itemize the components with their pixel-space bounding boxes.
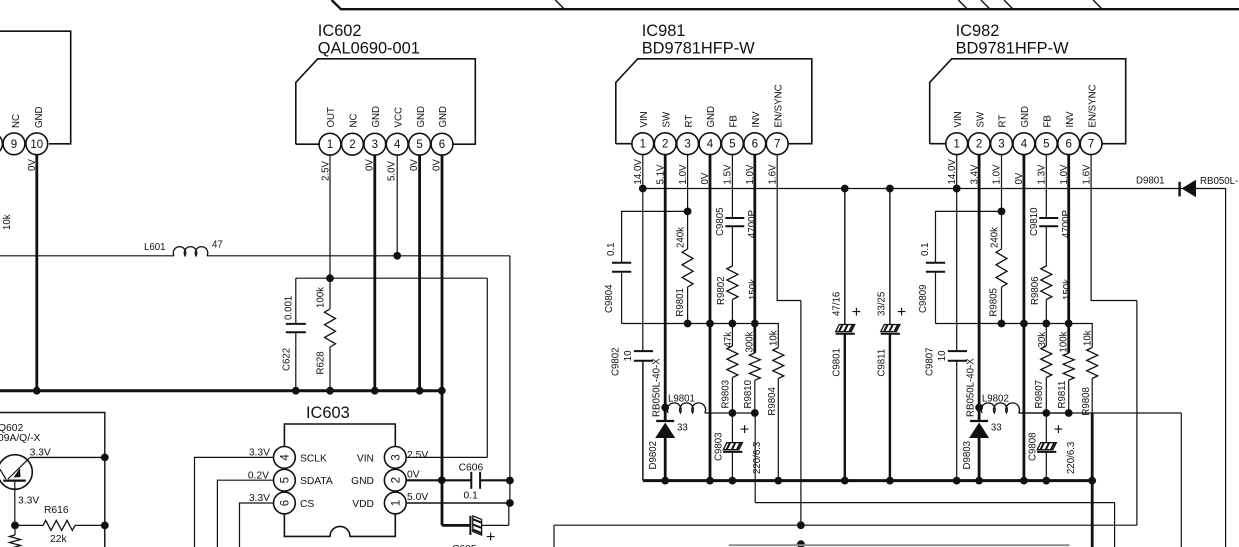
svg-text:L9802: L9802: [982, 394, 1009, 405]
svg-text:7: 7: [774, 139, 780, 151]
svg-text:1: 1: [953, 139, 959, 151]
svg-text:FB: FB: [729, 115, 740, 127]
svg-text:0V: 0V: [407, 470, 420, 481]
svg-text:R628: R628: [316, 351, 327, 374]
svg-text:VIN: VIN: [357, 453, 374, 464]
svg-text:100k: 100k: [315, 287, 326, 308]
svg-text:09A/Q/-X: 09A/Q/-X: [0, 433, 40, 444]
svg-text:+: +: [486, 529, 495, 546]
svg-text:3.3V: 3.3V: [249, 448, 270, 459]
svg-text:D9802: D9802: [648, 441, 659, 470]
svg-text:10k: 10k: [1082, 330, 1093, 346]
svg-text:47k: 47k: [723, 332, 734, 348]
svg-text:IC603: IC603: [306, 404, 350, 422]
svg-text:1.0V: 1.0V: [992, 164, 1003, 184]
svg-text:NC: NC: [349, 114, 360, 128]
svg-text:47: 47: [212, 240, 223, 251]
svg-text:1.3V: 1.3V: [1037, 164, 1048, 184]
svg-text:10: 10: [937, 350, 948, 361]
svg-text:14.0V: 14.0V: [633, 159, 644, 185]
svg-text:C9809: C9809: [918, 284, 929, 313]
svg-text:300k: 300k: [744, 331, 755, 352]
svg-text:2: 2: [349, 139, 355, 151]
svg-text:3.3V: 3.3V: [18, 496, 39, 507]
svg-text:10k: 10k: [769, 330, 780, 346]
svg-text:0.1: 0.1: [920, 243, 931, 256]
svg-text:33: 33: [677, 423, 688, 434]
svg-text:33/25: 33/25: [877, 292, 888, 316]
svg-text:0V: 0V: [432, 159, 443, 171]
svg-text:3.3V: 3.3V: [249, 493, 270, 504]
svg-text:SCLK: SCLK: [300, 453, 327, 464]
svg-text:+: +: [852, 304, 861, 321]
svg-text:2: 2: [976, 139, 982, 151]
svg-text:6: 6: [439, 139, 445, 151]
svg-text:SW: SW: [975, 111, 986, 127]
svg-text:VDD: VDD: [352, 499, 374, 510]
svg-text:0.2V: 0.2V: [248, 470, 269, 481]
svg-text:5.0V: 5.0V: [387, 161, 398, 181]
svg-text:GND: GND: [34, 106, 45, 128]
svg-text:C9801: C9801: [832, 348, 843, 377]
svg-text:1: 1: [640, 139, 646, 151]
svg-text:VCC: VCC: [393, 107, 404, 127]
svg-text:GND: GND: [351, 476, 374, 487]
svg-text:1.5V: 1.5V: [723, 164, 734, 184]
svg-text:47/16: 47/16: [832, 292, 843, 316]
svg-text:3: 3: [998, 139, 1004, 151]
svg-text:240k: 240k: [676, 227, 687, 248]
svg-text:0V: 0V: [409, 159, 420, 171]
svg-text:5: 5: [416, 139, 422, 151]
svg-text:RT: RT: [998, 115, 1009, 128]
svg-text:4: 4: [394, 139, 401, 151]
svg-text:R9805: R9805: [989, 288, 1000, 317]
svg-text:3.4V: 3.4V: [969, 164, 980, 184]
svg-text:33: 33: [991, 423, 1002, 434]
svg-text:R9802: R9802: [716, 276, 727, 305]
svg-text:EN/SYNC: EN/SYNC: [773, 84, 784, 127]
svg-text:0V: 0V: [1014, 172, 1025, 184]
svg-text:1: 1: [390, 500, 402, 506]
svg-text:C9811: C9811: [877, 349, 888, 377]
svg-text:VIN: VIN: [639, 111, 650, 127]
svg-text:6: 6: [1065, 139, 1071, 151]
svg-text:5: 5: [1043, 139, 1049, 151]
svg-text:22k: 22k: [50, 534, 67, 545]
svg-text:6: 6: [279, 500, 291, 506]
svg-text:0.001: 0.001: [284, 296, 295, 320]
svg-text:C9804: C9804: [604, 284, 615, 313]
svg-text:RB050L-40-X: RB050L-40-X: [652, 358, 663, 417]
svg-text:6: 6: [752, 139, 758, 151]
svg-text:R9811: R9811: [1057, 381, 1068, 409]
svg-text:R9808: R9808: [1081, 387, 1092, 416]
svg-text:2.5V: 2.5V: [321, 161, 332, 181]
svg-text:INV: INV: [751, 111, 762, 128]
svg-text:0V: 0V: [700, 172, 711, 184]
svg-text:0V: 0V: [364, 159, 375, 171]
svg-text:R9810: R9810: [743, 379, 754, 408]
svg-text:D9803: D9803: [962, 441, 973, 470]
svg-text:4700P: 4700P: [747, 210, 758, 238]
svg-text:EN/SYNC: EN/SYNC: [1087, 84, 1098, 127]
svg-text:1.6V: 1.6V: [767, 164, 778, 184]
svg-text:C9803: C9803: [714, 432, 725, 461]
svg-text:C9802: C9802: [611, 347, 622, 376]
svg-text:CS: CS: [300, 499, 314, 510]
svg-text:R9801: R9801: [675, 288, 686, 317]
svg-text:100k: 100k: [1058, 331, 1069, 352]
svg-text:GND: GND: [1020, 106, 1031, 128]
svg-text:3.3V: 3.3V: [30, 448, 51, 459]
svg-text:BD9781HFP-W: BD9781HFP-W: [642, 40, 755, 58]
svg-text:9: 9: [11, 139, 17, 151]
svg-text:4: 4: [707, 139, 714, 151]
svg-text:GND: GND: [438, 106, 449, 128]
svg-text:NC: NC: [11, 114, 22, 128]
svg-text:14.0V: 14.0V: [947, 159, 958, 185]
svg-text:IC602: IC602: [318, 22, 362, 40]
svg-text:C606: C606: [459, 462, 484, 473]
svg-text:C9810: C9810: [1029, 207, 1040, 236]
svg-text:BD9781HFP-W: BD9781HFP-W: [956, 40, 1069, 58]
svg-text:R9806: R9806: [1030, 276, 1041, 305]
svg-text:VIN: VIN: [953, 111, 964, 127]
svg-text:SDATA: SDATA: [300, 476, 333, 487]
svg-text:+: +: [1054, 422, 1063, 439]
svg-text:10: 10: [30, 139, 43, 151]
svg-text:3: 3: [684, 139, 690, 151]
svg-text:L601: L601: [144, 242, 166, 253]
svg-text:D9801: D9801: [1136, 176, 1165, 187]
svg-text:240k: 240k: [989, 227, 1000, 248]
svg-text:RB050L-40-X: RB050L-40-X: [965, 358, 976, 417]
svg-text:0.1: 0.1: [606, 243, 617, 256]
svg-text:R9804: R9804: [767, 386, 778, 415]
svg-text:FB: FB: [1043, 115, 1054, 127]
svg-text:+: +: [897, 304, 906, 321]
svg-text:3: 3: [372, 139, 378, 151]
svg-text:10k: 10k: [2, 214, 13, 230]
svg-text:150k: 150k: [748, 279, 759, 300]
svg-text:1.0V: 1.0V: [1059, 164, 1070, 184]
svg-text:+: +: [740, 422, 749, 439]
svg-text:1.0V: 1.0V: [678, 164, 689, 184]
svg-text:1: 1: [327, 139, 333, 151]
svg-text:7: 7: [1088, 139, 1094, 151]
svg-text:RB050L-: RB050L-: [1200, 176, 1238, 187]
svg-text:C9807: C9807: [925, 347, 936, 376]
svg-text:OUT: OUT: [326, 107, 337, 128]
svg-text:3: 3: [390, 454, 402, 460]
svg-text:5: 5: [279, 477, 291, 483]
svg-text:10: 10: [623, 350, 634, 361]
svg-text:GND: GND: [706, 106, 717, 128]
svg-text:4: 4: [279, 454, 291, 461]
svg-text:220/6.3: 220/6.3: [752, 442, 763, 474]
svg-text:2.5V: 2.5V: [407, 450, 428, 461]
svg-text:QAL0690-001: QAL0690-001: [318, 40, 420, 58]
svg-text:IC981: IC981: [642, 22, 686, 40]
svg-text:5.1V: 5.1V: [655, 164, 666, 184]
svg-text:150k: 150k: [1062, 279, 1073, 300]
svg-text:1.6V: 1.6V: [1081, 164, 1092, 184]
svg-text:GND: GND: [371, 106, 382, 128]
svg-text:0V: 0V: [27, 159, 38, 171]
svg-text:4: 4: [1021, 139, 1028, 151]
svg-text:IC982: IC982: [956, 22, 1000, 40]
svg-text:R616: R616: [44, 505, 69, 516]
svg-text:2: 2: [662, 139, 668, 151]
svg-text:C9805: C9805: [715, 207, 726, 236]
svg-text:RT: RT: [684, 115, 695, 128]
svg-text:5.0V: 5.0V: [407, 492, 428, 503]
svg-text:R9807: R9807: [1034, 380, 1045, 409]
svg-text:L9801: L9801: [668, 394, 695, 405]
svg-text:220/6.3: 220/6.3: [1066, 442, 1077, 474]
svg-text:0.1: 0.1: [464, 491, 479, 502]
svg-text:C9808: C9808: [1027, 432, 1038, 461]
svg-text:30k: 30k: [1037, 332, 1048, 348]
svg-text:R9803: R9803: [720, 380, 731, 409]
svg-text:5: 5: [729, 139, 735, 151]
svg-text:GND: GND: [416, 106, 427, 128]
svg-text:INV: INV: [1065, 111, 1076, 128]
svg-text:4700P: 4700P: [1061, 210, 1072, 238]
svg-text:SW: SW: [661, 111, 672, 127]
svg-text:2: 2: [390, 477, 402, 483]
svg-text:C622: C622: [282, 348, 293, 371]
svg-text:1.0V: 1.0V: [745, 164, 756, 184]
